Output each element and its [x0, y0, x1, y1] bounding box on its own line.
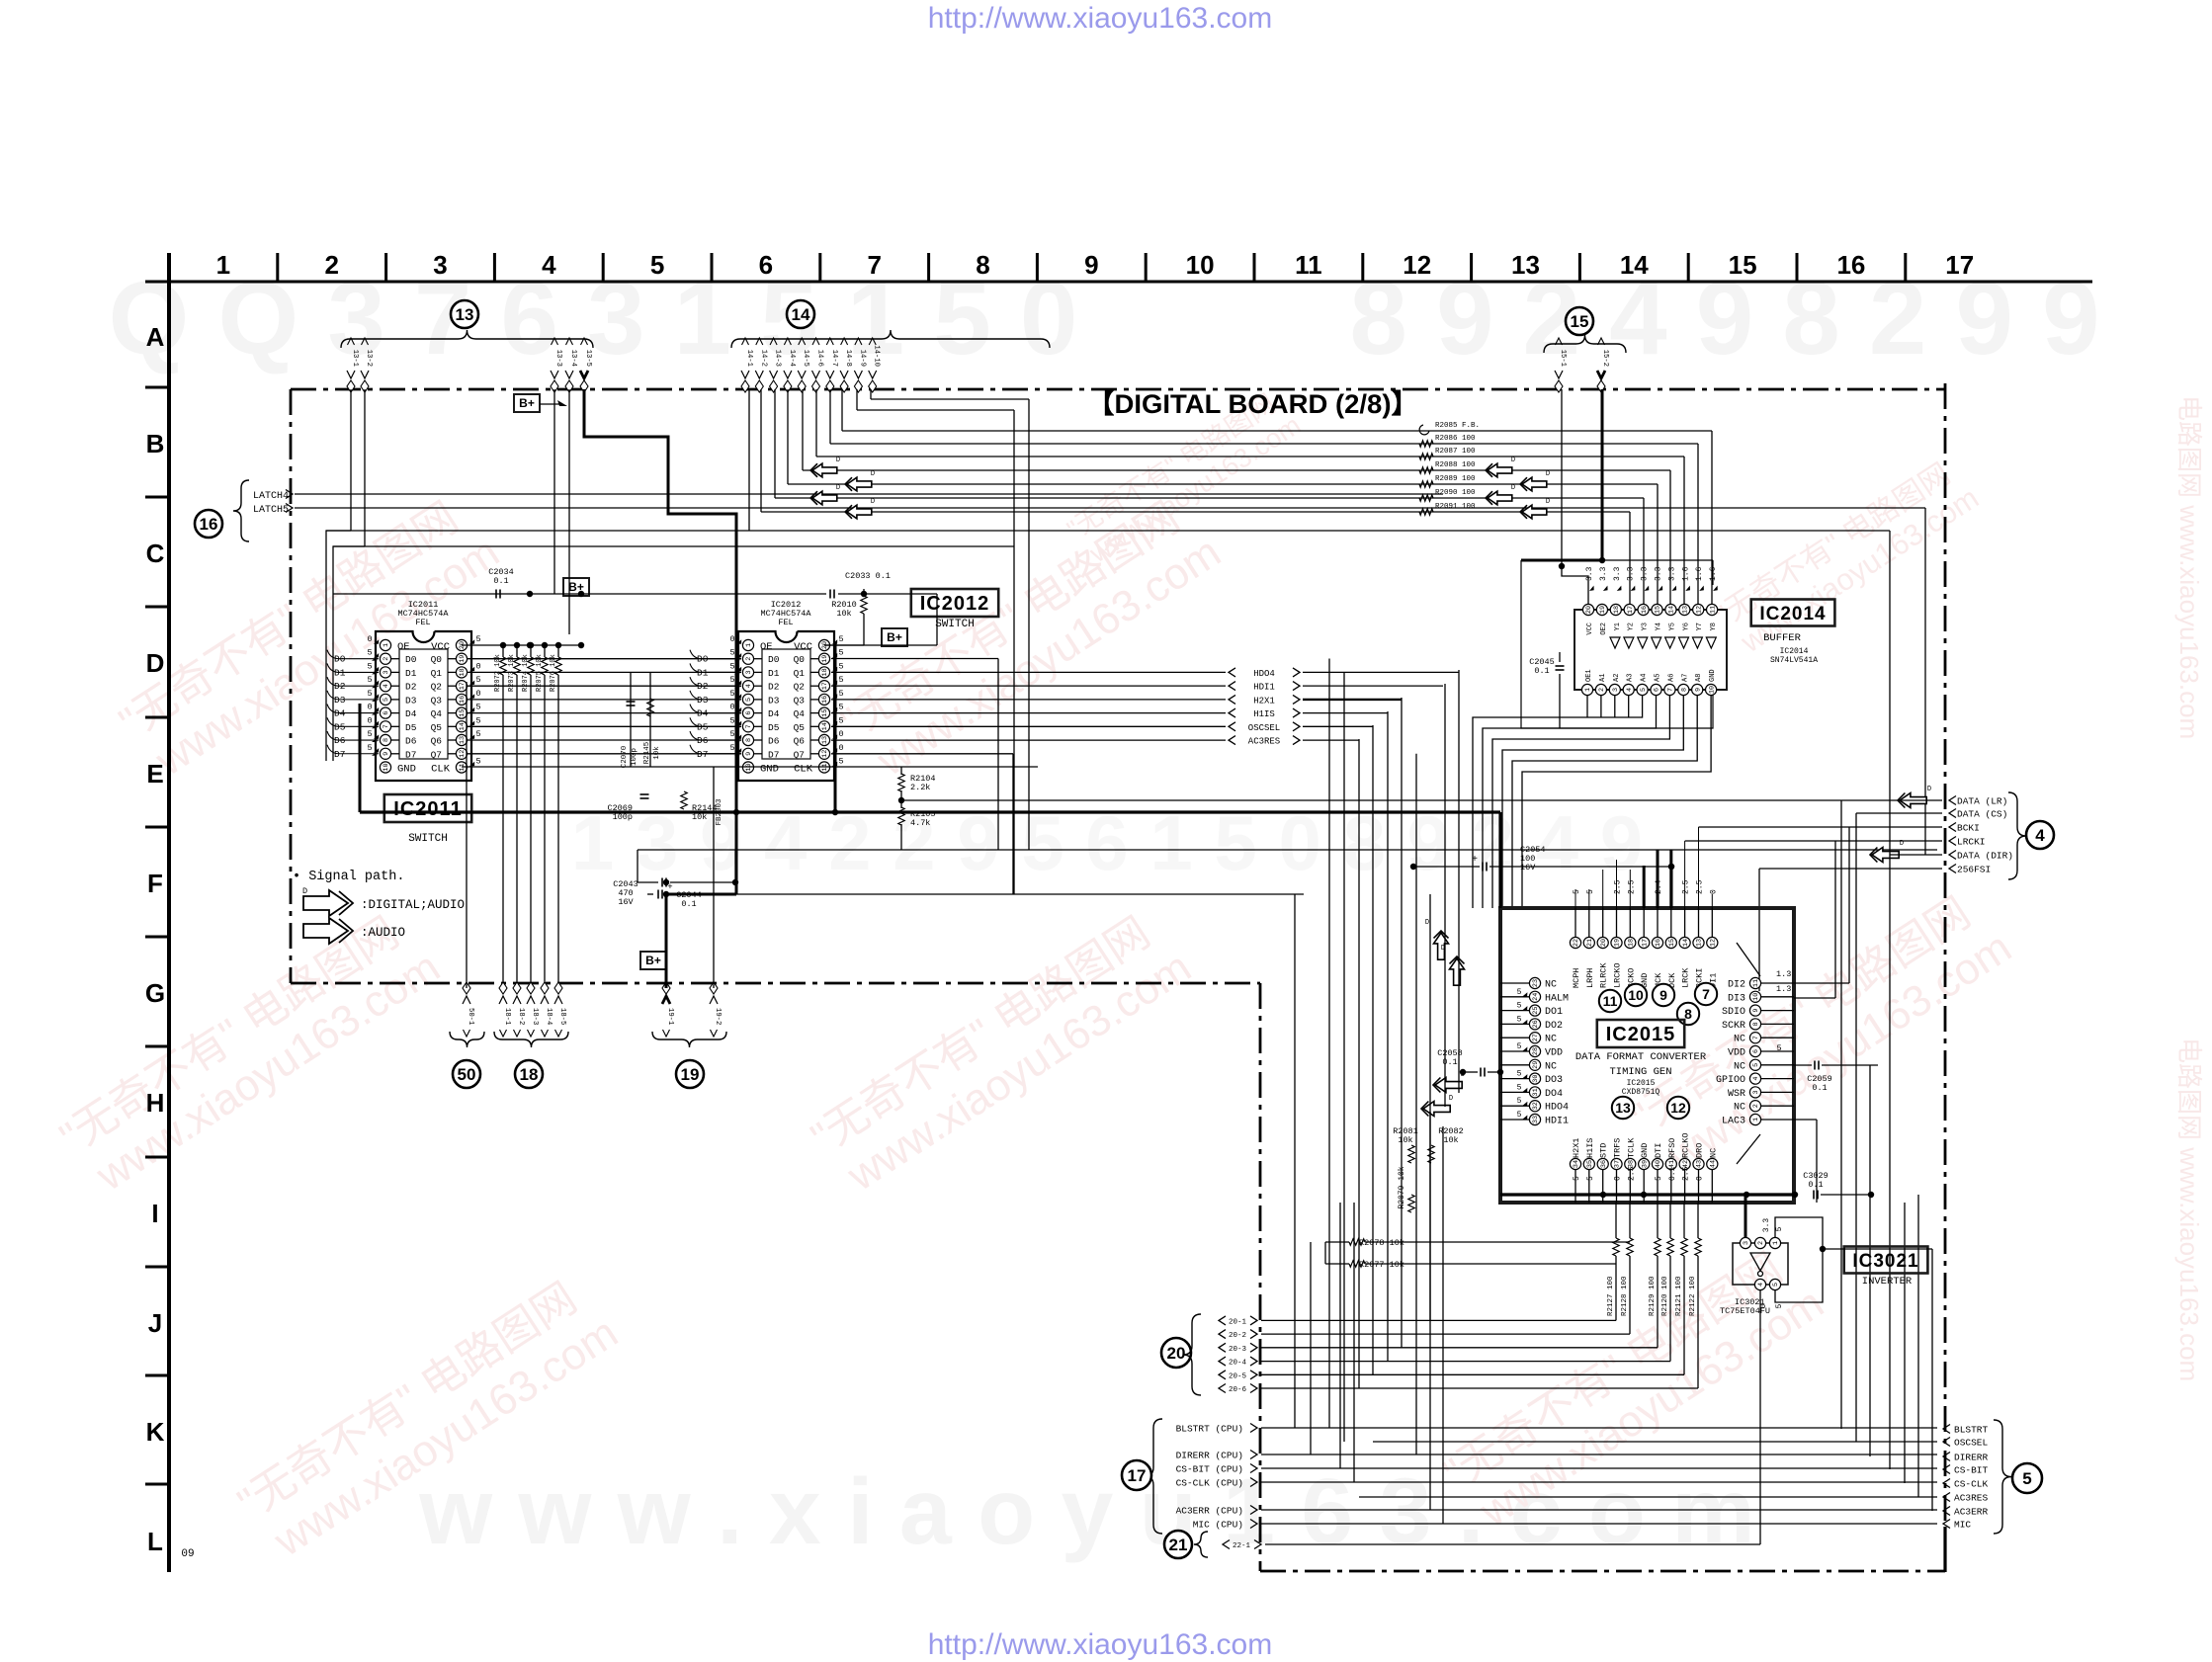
svg-text:A5: A5	[1655, 674, 1662, 682]
svg-text:5: 5	[1586, 1176, 1595, 1181]
svg-text:5: 5	[729, 689, 734, 699]
svg-text:13: 13	[456, 305, 474, 324]
svg-text:5: 5	[838, 703, 843, 712]
svg-text:9: 9	[1752, 1009, 1760, 1013]
svg-text:D: D	[1546, 498, 1550, 506]
svg-text:12: 12	[821, 750, 829, 758]
svg-text:LRCKI: LRCKI	[1957, 837, 1986, 848]
svg-text:2: 2	[1598, 688, 1606, 692]
svg-text:15: 15	[1729, 250, 1757, 280]
svg-text:10: 10	[1752, 993, 1760, 1001]
svg-text:5: 5	[1586, 889, 1595, 894]
svg-text:3.3: 3.3	[1585, 566, 1594, 581]
svg-text:http://www.xiaoyu163.com: http://www.xiaoyu163.com	[928, 2, 1273, 35]
svg-text:DATA (LR): DATA (LR)	[1957, 796, 2007, 807]
svg-text:44: 44	[1710, 1160, 1718, 1168]
svg-text:NC: NC	[1734, 1061, 1745, 1072]
svg-text:5: 5	[367, 675, 372, 685]
svg-text:5: 5	[1517, 1070, 1522, 1079]
svg-text:13: 13	[1511, 250, 1540, 280]
svg-text:Y8: Y8	[1710, 623, 1718, 630]
svg-text:0: 0	[1696, 1176, 1705, 1181]
svg-text:7: 7	[1702, 986, 1710, 1002]
svg-text:MCPH: MCPH	[1572, 968, 1581, 988]
svg-text:5: 5	[1517, 1111, 1522, 1120]
svg-text:17: 17	[1627, 606, 1635, 614]
svg-text:Y4: Y4	[1656, 623, 1663, 630]
svg-text:D: D	[1927, 786, 1931, 793]
svg-text:5: 5	[2022, 1469, 2031, 1488]
svg-text:CS-CLK: CS-CLK	[1954, 1479, 1989, 1490]
svg-text:0: 0	[367, 634, 372, 644]
svg-text:13-2: 13-2	[365, 350, 373, 367]
svg-text:14: 14	[1668, 606, 1676, 614]
svg-text:5: 5	[475, 757, 480, 767]
svg-text:TIMING GEN: TIMING GEN	[1609, 1066, 1671, 1078]
svg-text:1: 1	[1752, 1118, 1760, 1122]
svg-text:DO4: DO4	[1545, 1089, 1563, 1100]
svg-text:19-1: 19-1	[666, 1008, 674, 1025]
svg-text:5: 5	[1517, 1042, 1522, 1051]
svg-text:RLRCK: RLRCK	[1599, 962, 1609, 988]
svg-text:2.5: 2.5	[1682, 879, 1691, 894]
svg-text:5: 5	[1517, 1002, 1522, 1011]
svg-text:20: 20	[1585, 606, 1593, 614]
svg-text:DATA FORMAT CONVERTER: DATA FORMAT CONVERTER	[1575, 1051, 1707, 1063]
svg-text:Q5: Q5	[431, 722, 443, 733]
svg-text:14-10: 14-10	[873, 345, 881, 367]
svg-text:10: 10	[1186, 250, 1215, 280]
svg-text:1.6: 1.6	[1709, 566, 1718, 581]
svg-text:09: 09	[181, 1548, 194, 1560]
svg-text:IC2015: IC2015	[1606, 1024, 1676, 1045]
svg-text:H2X1: H2X1	[1253, 696, 1275, 706]
svg-text:21: 21	[1586, 939, 1594, 947]
svg-text:10k: 10k	[1443, 1135, 1458, 1145]
svg-text:Q5: Q5	[794, 722, 806, 733]
svg-text:Q3: Q3	[794, 695, 806, 706]
svg-text:43: 43	[1696, 1160, 1704, 1168]
svg-text:CS-BIT (CPU): CS-BIT (CPU)	[1176, 1464, 1243, 1475]
svg-text:L: L	[147, 1527, 163, 1556]
svg-text:8: 8	[1681, 688, 1689, 692]
svg-text:13-1: 13-1	[351, 350, 359, 367]
svg-text:Q4: Q4	[431, 708, 443, 719]
svg-text:2: 2	[324, 250, 338, 280]
svg-text:D: D	[1449, 1095, 1453, 1103]
svg-text:+: +	[1472, 855, 1478, 866]
svg-text:GND: GND	[760, 764, 779, 776]
svg-text:0: 0	[367, 715, 372, 725]
svg-text:16V: 16V	[1520, 863, 1536, 873]
svg-text:3.3: 3.3	[1655, 566, 1663, 581]
svg-text:17: 17	[1945, 250, 1974, 280]
svg-text:D: D	[146, 648, 165, 678]
svg-text:D6: D6	[405, 736, 417, 747]
svg-text:18-3: 18-3	[531, 1008, 539, 1025]
svg-text:LRPH: LRPH	[1585, 968, 1595, 988]
svg-text:LATCH4: LATCH4	[253, 491, 289, 502]
svg-text:10: 10	[383, 763, 390, 771]
svg-text:5: 5	[1752, 1063, 1760, 1067]
svg-text:13-5: 13-5	[584, 350, 592, 367]
svg-text:R2145: R2145	[643, 741, 651, 764]
svg-text:23: 23	[1532, 979, 1540, 987]
svg-text:Q7: Q7	[794, 749, 805, 760]
svg-text:20-6: 20-6	[1229, 1386, 1247, 1394]
svg-text:A4: A4	[1641, 674, 1649, 682]
svg-text:13-4: 13-4	[569, 350, 577, 367]
svg-text:20-4: 20-4	[1229, 1360, 1247, 1368]
svg-text:A7: A7	[1681, 674, 1689, 682]
svg-text:HDO4: HDO4	[1545, 1103, 1569, 1114]
svg-text:R2086 100: R2086 100	[1435, 435, 1476, 443]
svg-text::DIGITAL;AUDIO: :DIGITAL;AUDIO	[361, 898, 465, 912]
svg-text:Y7: Y7	[1696, 623, 1704, 630]
svg-text:18: 18	[520, 1065, 539, 1084]
svg-text:Q2: Q2	[431, 682, 443, 693]
svg-text:12: 12	[1670, 1100, 1686, 1116]
svg-text:2.2k: 2.2k	[910, 783, 930, 792]
svg-text:GPIOO: GPIOO	[1716, 1075, 1745, 1086]
svg-text:GND: GND	[1640, 1143, 1650, 1158]
svg-text:14-1: 14-1	[745, 350, 753, 367]
svg-text:TCLK: TCLK	[1626, 1137, 1636, 1158]
svg-text:D1: D1	[768, 668, 780, 679]
svg-text:12: 12	[1695, 606, 1703, 614]
svg-text:5: 5	[729, 715, 734, 725]
svg-text:14-7: 14-7	[830, 350, 838, 367]
svg-text:3.3: 3.3	[1667, 566, 1676, 581]
svg-text:Y3: Y3	[1642, 623, 1650, 630]
svg-text:14: 14	[1682, 939, 1690, 947]
svg-text:0: 0	[475, 661, 480, 671]
svg-text:7: 7	[1752, 1036, 1760, 1039]
svg-text:Q Q 3 7 6 3 1 5 1 5 0: Q Q 3 7 6 3 1 5 1 5 0	[109, 261, 1078, 376]
svg-text:4: 4	[542, 250, 556, 280]
svg-text:• Signal path.: • Signal path.	[293, 870, 404, 884]
svg-text:13: 13	[1615, 1100, 1631, 1116]
svg-text:K: K	[146, 1417, 165, 1447]
svg-text:9: 9	[383, 752, 390, 756]
svg-text:Y1: Y1	[1614, 623, 1622, 630]
svg-text:19-2: 19-2	[714, 1008, 722, 1025]
svg-text:SDIO: SDIO	[1722, 1007, 1745, 1018]
svg-text:5: 5	[729, 675, 734, 685]
svg-text:6: 6	[759, 250, 773, 280]
svg-text:D7: D7	[405, 749, 416, 760]
svg-text:DRO: DRO	[1695, 1143, 1705, 1158]
svg-text:40: 40	[1655, 1160, 1662, 1168]
svg-text:5: 5	[1517, 1015, 1522, 1024]
svg-text:D4: D4	[405, 708, 417, 719]
svg-text:R2128 100: R2128 100	[1621, 1276, 1629, 1316]
svg-text:9: 9	[1659, 987, 1667, 1003]
svg-text:5: 5	[383, 698, 390, 702]
svg-text:R2120 100: R2120 100	[1661, 1276, 1669, 1316]
svg-text:H1IS: H1IS	[1585, 1138, 1595, 1158]
svg-text:STD: STD	[1599, 1143, 1609, 1158]
svg-text:50: 50	[458, 1065, 476, 1084]
svg-text:NC: NC	[1545, 1035, 1557, 1045]
svg-text:11: 11	[1603, 993, 1618, 1009]
svg-text:50-1: 50-1	[467, 1008, 474, 1025]
svg-text:A1: A1	[1599, 674, 1607, 682]
svg-text:DATA (CS): DATA (CS)	[1957, 809, 2007, 820]
svg-text:6: 6	[1654, 688, 1661, 692]
svg-text:3: 3	[433, 250, 447, 280]
svg-text:5: 5	[1573, 1176, 1581, 1181]
svg-text:16: 16	[1836, 250, 1865, 280]
svg-text:MIC: MIC	[1954, 1520, 1971, 1531]
svg-text:BUFFER: BUFFER	[1763, 632, 1802, 644]
svg-text:8: 8	[1752, 1022, 1760, 1026]
svg-text:Y2: Y2	[1628, 623, 1636, 630]
svg-text:SWITCH: SWITCH	[408, 833, 448, 845]
svg-text:AC3RES: AC3RES	[1248, 737, 1280, 747]
svg-text:14-6: 14-6	[816, 350, 824, 367]
svg-text:18-5: 18-5	[558, 1008, 566, 1025]
svg-text:3.3: 3.3	[1599, 566, 1608, 581]
svg-text:16: 16	[200, 515, 218, 534]
svg-text:D3: D3	[405, 695, 417, 706]
svg-text:20-1: 20-1	[1229, 1318, 1247, 1326]
svg-text:DO2: DO2	[1545, 1021, 1563, 1032]
svg-text:D: D	[871, 470, 875, 478]
svg-text:22-1: 22-1	[1233, 1542, 1251, 1550]
svg-text:CLK: CLK	[794, 764, 813, 776]
svg-text:D7: D7	[768, 749, 779, 760]
svg-text:LAC3: LAC3	[1722, 1117, 1745, 1127]
svg-text:2: 2	[1757, 1241, 1765, 1245]
svg-text:5: 5	[1517, 1097, 1522, 1106]
svg-text:8: 8	[383, 738, 390, 742]
svg-text:IC2014: IC2014	[1759, 604, 1826, 624]
svg-text:Q7: Q7	[431, 749, 442, 760]
svg-text:VCC: VCC	[1586, 623, 1594, 635]
svg-text:9: 9	[745, 752, 753, 756]
svg-text:14: 14	[459, 722, 467, 730]
svg-text:4: 4	[745, 684, 753, 688]
svg-text:5: 5	[475, 675, 480, 685]
svg-text:CS-CLK (CPU): CS-CLK (CPU)	[1176, 1478, 1243, 1489]
svg-text:17: 17	[821, 682, 829, 690]
svg-text:LATCH5: LATCH5	[253, 505, 289, 516]
svg-text:TRFS: TRFS	[1613, 1138, 1623, 1158]
svg-text:5: 5	[1517, 988, 1522, 997]
svg-text:100p: 100p	[613, 812, 633, 822]
svg-text:12: 12	[459, 750, 467, 758]
svg-text:4: 4	[1757, 1283, 1765, 1287]
svg-text:LRCK: LRCK	[1681, 967, 1691, 988]
svg-text:Q3: Q3	[431, 695, 443, 706]
svg-text:7: 7	[867, 250, 881, 280]
svg-text:1: 1	[216, 250, 230, 280]
svg-text::AUDIO: :AUDIO	[361, 926, 405, 940]
svg-text:5: 5	[1640, 688, 1648, 692]
svg-text:13-3: 13-3	[554, 350, 562, 367]
svg-text:4: 4	[2035, 826, 2045, 845]
svg-text:HDI1: HDI1	[1253, 683, 1275, 693]
svg-text:Q6: Q6	[431, 736, 443, 747]
svg-text:15: 15	[459, 709, 467, 717]
svg-text:CXD8751Q: CXD8751Q	[1622, 1088, 1660, 1097]
svg-text:VDD: VDD	[1545, 1048, 1563, 1059]
svg-text:FEL: FEL	[778, 618, 793, 627]
svg-text:28: 28	[1532, 1047, 1540, 1055]
svg-text:2: 2	[745, 657, 753, 661]
svg-text:B+: B+	[645, 954, 661, 967]
svg-text:7: 7	[745, 724, 753, 728]
svg-text:3: 3	[1743, 1241, 1750, 1245]
svg-text:Q4: Q4	[794, 708, 806, 719]
svg-text:R2088 100: R2088 100	[1435, 461, 1476, 469]
svg-text:9: 9	[1084, 250, 1098, 280]
svg-text:11: 11	[1752, 979, 1760, 987]
svg-text:13: 13	[1682, 606, 1690, 614]
svg-text:H2X1: H2X1	[1572, 1138, 1581, 1158]
svg-text:19: 19	[1614, 939, 1622, 947]
svg-text:19: 19	[681, 1065, 700, 1084]
svg-text:VCC: VCC	[794, 641, 812, 653]
svg-text:16V: 16V	[618, 897, 634, 907]
svg-text:2.5: 2.5	[1614, 879, 1623, 894]
svg-text:4: 4	[1752, 1077, 1760, 1081]
svg-text:5: 5	[367, 729, 372, 739]
svg-text:B+: B+	[519, 396, 535, 410]
svg-text:2: 2	[383, 657, 390, 661]
svg-text:NC: NC	[1734, 1035, 1745, 1045]
svg-text:5: 5	[367, 689, 372, 699]
svg-text:0.1: 0.1	[1534, 666, 1549, 676]
svg-text:9: 9	[1694, 688, 1702, 692]
svg-text:DI2: DI2	[1728, 980, 1745, 991]
svg-text:19: 19	[459, 655, 467, 663]
svg-text:AC3ERR (CPU): AC3ERR (CPU)	[1176, 1506, 1243, 1517]
svg-text:H1IS: H1IS	[1253, 709, 1275, 719]
svg-text:5: 5	[1573, 889, 1581, 894]
svg-text:D5: D5	[405, 722, 417, 733]
svg-text:D6: D6	[768, 736, 780, 747]
svg-text:3: 3	[1752, 1090, 1760, 1094]
svg-text:20: 20	[1167, 1344, 1186, 1363]
svg-text:16: 16	[1655, 939, 1662, 947]
svg-text:37: 37	[1614, 1160, 1622, 1168]
svg-text:F: F	[147, 869, 163, 898]
svg-text:R2127 100: R2127 100	[1607, 1276, 1615, 1316]
svg-text:20-5: 20-5	[1229, 1372, 1247, 1380]
svg-text:32: 32	[1532, 1102, 1540, 1110]
svg-text:E: E	[146, 759, 163, 789]
svg-text:DO3: DO3	[1545, 1075, 1563, 1086]
svg-text:14-4: 14-4	[788, 350, 796, 367]
svg-text:D5: D5	[768, 722, 780, 733]
svg-text:5: 5	[838, 715, 843, 725]
svg-text:4.7k: 4.7k	[910, 818, 930, 828]
svg-text:DTI: DTI	[1654, 1143, 1663, 1158]
svg-text:0.1: 0.1	[1808, 1180, 1823, 1190]
svg-text:34: 34	[1573, 1160, 1580, 1168]
svg-text:3: 3	[745, 670, 753, 674]
svg-text:0.1: 0.1	[681, 899, 696, 909]
svg-text:7: 7	[383, 724, 390, 728]
svg-text:D: D	[1425, 919, 1429, 927]
svg-text:0: 0	[729, 634, 734, 644]
svg-text:12: 12	[1710, 939, 1718, 947]
svg-text:HDI1: HDI1	[1545, 1117, 1569, 1127]
svg-text:5: 5	[1775, 1303, 1784, 1308]
svg-text:GND: GND	[397, 764, 416, 776]
svg-text:31: 31	[1532, 1088, 1540, 1096]
svg-text:D3: D3	[768, 695, 780, 706]
svg-text:10: 10	[1708, 686, 1716, 694]
svg-text:15: 15	[1655, 606, 1662, 614]
svg-text:R2091 100: R2091 100	[1435, 503, 1476, 511]
svg-text:OE: OE	[397, 641, 410, 653]
svg-text:2.5: 2.5	[1627, 879, 1636, 894]
svg-text:18: 18	[1613, 606, 1621, 614]
svg-text:CS-BIT: CS-BIT	[1954, 1465, 1989, 1476]
svg-text:5: 5	[1655, 1176, 1663, 1181]
svg-text:BLSTRT (CPU): BLSTRT (CPU)	[1176, 1424, 1243, 1435]
svg-text:10k: 10k	[653, 746, 661, 760]
svg-text:D2: D2	[405, 682, 417, 693]
svg-text:14: 14	[821, 722, 829, 730]
svg-text:18: 18	[459, 668, 467, 676]
svg-text:14-9: 14-9	[858, 350, 866, 367]
svg-text:FEL: FEL	[415, 618, 430, 627]
svg-text:33: 33	[1532, 1116, 1540, 1123]
svg-text:10k: 10k	[836, 609, 851, 619]
svg-text:5: 5	[367, 661, 372, 671]
svg-text:2.5: 2.5	[1682, 1166, 1691, 1181]
svg-text:IC2014: IC2014	[1780, 647, 1809, 656]
svg-text:8: 8	[745, 738, 753, 742]
svg-text:10k: 10k	[692, 812, 707, 822]
svg-text:17: 17	[1641, 939, 1649, 947]
svg-text:18-2: 18-2	[517, 1008, 525, 1025]
svg-text:WSR: WSR	[1728, 1089, 1745, 1100]
svg-text:0: 0	[1614, 1176, 1623, 1181]
svg-text:5: 5	[729, 648, 734, 658]
svg-text:35: 35	[1586, 1160, 1594, 1168]
svg-text:A3: A3	[1627, 674, 1635, 682]
svg-text:18-1: 18-1	[503, 1008, 511, 1025]
svg-text:3: 3	[1612, 688, 1620, 692]
svg-text:13: 13	[821, 736, 829, 744]
svg-text:10k: 10k	[1398, 1135, 1412, 1145]
svg-text:IC2011: IC2011	[393, 798, 462, 820]
svg-text:C: C	[146, 539, 165, 568]
svg-text:Q0: Q0	[431, 654, 443, 665]
svg-text:14-5: 14-5	[802, 350, 809, 367]
svg-text:OSCSEL: OSCSEL	[1248, 723, 1280, 733]
svg-text:AC3ERR: AC3ERR	[1954, 1507, 1989, 1518]
svg-text:4: 4	[1626, 688, 1634, 692]
svg-text:A8: A8	[1695, 674, 1703, 682]
svg-text:R2087 100: R2087 100	[1435, 448, 1476, 456]
svg-text:A: A	[146, 322, 165, 352]
svg-text:0.1: 0.1	[1668, 1166, 1677, 1181]
svg-text:SCKR: SCKR	[1722, 1021, 1745, 1032]
svg-text:R2089 100: R2089 100	[1435, 475, 1476, 483]
svg-text:24: 24	[1532, 993, 1540, 1001]
svg-text:DIRERR (CPU): DIRERR (CPU)	[1176, 1451, 1243, 1461]
svg-text:D0: D0	[768, 654, 780, 665]
svg-text:17: 17	[459, 682, 467, 690]
svg-text:5: 5	[745, 698, 753, 702]
svg-text:http://www.xiaoyu163.com: http://www.xiaoyu163.com	[928, 1628, 1273, 1661]
